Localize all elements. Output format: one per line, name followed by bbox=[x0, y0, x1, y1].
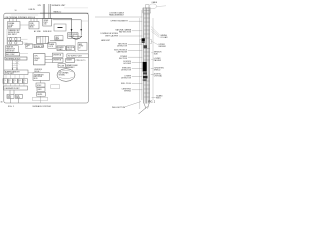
block B33 tall bbox=[78, 42, 87, 50]
block B8 bbox=[4, 70, 28, 75]
block B24 bbox=[33, 73, 50, 81]
wire drop a bbox=[9, 90, 11, 94]
wire c3 bbox=[45, 62, 52, 64]
block stack B5 bbox=[6, 46, 19, 53]
transformer box bbox=[43, 19, 52, 27]
wire drop bottom center bbox=[40, 96, 42, 103]
wire between A and B bbox=[20, 24, 29, 26]
wire meter leader 1 bbox=[21, 38, 28, 40]
svg-text:SET PT: SET PT bbox=[68, 36, 74, 38]
svg-text:ARM UNIT: ARM UNIT bbox=[101, 39, 111, 42]
left figure outer enclosure bbox=[4, 13, 89, 103]
block B10 bbox=[4, 86, 28, 90]
wire top right corner bbox=[81, 20, 88, 22]
svg-text:PANEL 12: PANEL 12 bbox=[54, 10, 62, 13]
block B28 bbox=[55, 36, 63, 40]
svg-text:PACKER: PACKER bbox=[159, 45, 167, 48]
wire drop b bbox=[13, 90, 15, 94]
svg-text:VESSEL: VESSEL bbox=[59, 75, 66, 77]
wire rung 2 bbox=[12, 65, 18, 67]
svg-text:DETECTOR: DETECTOR bbox=[121, 69, 132, 71]
svg-text:RAY SECTION: RAY SECTION bbox=[119, 31, 132, 34]
wire bus drop 3 bbox=[16, 18, 18, 21]
block BD2 bbox=[66, 58, 75, 62]
block G dark bbox=[34, 44, 43, 47]
right label R8 bbox=[154, 67, 165, 71]
wire row drops bottom bbox=[6, 84, 24, 87]
wire second bus bbox=[53, 20, 82, 36]
svg-text:INTERFACE BUS: INTERFACE BUS bbox=[6, 57, 21, 60]
svg-text:CTRL OUT 9: CTRL OUT 9 bbox=[76, 60, 86, 62]
leader fan line 2 bbox=[151, 29, 160, 36]
svg-text:CABLE: CABLE bbox=[152, 1, 158, 4]
black segment upper bbox=[141, 38, 144, 41]
svg-text:LEVEL: LEVEL bbox=[37, 94, 42, 96]
svg-text:MIXER: MIXER bbox=[67, 60, 73, 62]
wire stem 5 bbox=[40, 80, 42, 83]
wire feed line 1b bbox=[44, 4, 46, 19]
block D bbox=[52, 53, 63, 57]
svg-text:CTRL UNIT: CTRL UNIT bbox=[5, 73, 14, 75]
extra tool line bbox=[141, 10, 143, 100]
svg-text:WITH CALIPER: WITH CALIPER bbox=[105, 34, 118, 37]
connector block bbox=[37, 36, 49, 43]
svg-text:SURFACE SYSTEM: SURFACE SYSTEM bbox=[32, 105, 51, 108]
wire rung 3 bbox=[12, 67, 18, 69]
svg-text:240: 240 bbox=[44, 24, 47, 26]
wire bus drop 2 bbox=[12, 18, 14, 21]
surface sheave blob bbox=[149, 4, 157, 9]
svg-text:CRYSTAL: CRYSTAL bbox=[154, 75, 162, 78]
wire bus drop 1 bbox=[9, 18, 11, 21]
left label E bbox=[117, 43, 128, 47]
right label R9 bbox=[154, 74, 162, 78]
block A power supply bbox=[8, 22, 20, 29]
wire stem 2 bbox=[16, 60, 18, 70]
left label G bbox=[119, 56, 128, 60]
svg-text:UNIT: UNIT bbox=[34, 60, 38, 62]
wire rail y40.8 bbox=[50, 40, 64, 42]
left label H bbox=[123, 61, 131, 65]
svg-text:PACKER: PACKER bbox=[154, 59, 162, 62]
wire dark top border stretch bbox=[40, 12, 88, 14]
block B9a bbox=[3, 79, 7, 84]
wire X brace bbox=[15, 61, 20, 65]
svg-text:REF: REF bbox=[8, 97, 11, 99]
bottom taper bbox=[144, 104, 146, 109]
block I dark bbox=[57, 46, 65, 51]
borehole wall left bbox=[139, 18, 141, 109]
block B7 bar bbox=[5, 57, 27, 60]
svg-text:CARTRIDGE: CARTRIDGE bbox=[116, 51, 127, 54]
wellhead collar bbox=[143, 8, 151, 13]
block C stack bbox=[34, 54, 46, 65]
block E bbox=[52, 58, 63, 62]
block J dark bbox=[66, 46, 74, 51]
bottom diagonal bbox=[139, 107, 148, 115]
leader fan line 1 bbox=[151, 27, 160, 35]
svg-text:P3: P3 bbox=[14, 80, 16, 82]
svg-text:MODE SET: MODE SET bbox=[6, 50, 14, 52]
svg-text:PT: PT bbox=[26, 47, 28, 49]
right label T1 bbox=[160, 34, 168, 39]
block K1 bbox=[54, 24, 66, 31]
wire meter leader 2 bbox=[23, 42, 28, 44]
wire bus drop 5 bbox=[33, 18, 35, 21]
tool joints bbox=[144, 11, 150, 98]
arrowhead left bbox=[71, 29, 73, 31]
right label T2 bbox=[159, 44, 167, 48]
tank blob bbox=[57, 69, 75, 82]
svg-text:RING: RING bbox=[156, 98, 161, 100]
svg-text:RELAY SW: RELAY SW bbox=[35, 45, 44, 48]
wire main bus bbox=[4, 18, 72, 35]
left label D bbox=[101, 33, 119, 42]
right label T3 bbox=[154, 52, 162, 56]
block B receiver bbox=[29, 22, 39, 29]
meter box M2 bbox=[8, 41, 22, 44]
side nub 2 bbox=[150, 40, 152, 44]
wire bus drop 6 bbox=[36, 18, 38, 21]
wire row drops top bbox=[6, 75, 24, 79]
wire c1 bbox=[45, 56, 52, 58]
left label A bbox=[109, 11, 125, 16]
svg-text:30: 30 bbox=[1, 102, 3, 104]
leader fan line 3 bbox=[152, 32, 160, 38]
left label C bbox=[116, 29, 132, 34]
svg-text:FUSE BOX: FUSE BOX bbox=[43, 31, 52, 33]
black segment main bbox=[143, 62, 147, 72]
svg-text:P5: P5 bbox=[24, 80, 26, 82]
wire rung 1 bbox=[12, 63, 18, 65]
svg-text:LOGIC: LOGIC bbox=[67, 49, 73, 51]
svg-text:HEAD ASSEMBLY: HEAD ASSEMBLY bbox=[109, 13, 125, 16]
wire bottom drop 2 bbox=[17, 98, 19, 103]
svg-text:LINE IN: LINE IN bbox=[29, 9, 36, 11]
svg-text:10: 10 bbox=[15, 10, 17, 12]
block B9c bbox=[13, 79, 17, 84]
svg-text:CALIBRATION NET: CALIBRATION NET bbox=[5, 87, 20, 90]
wire B6 leader bbox=[20, 53, 28, 55]
svg-text:DETECTOR: DETECTOR bbox=[121, 77, 132, 79]
block faint bc bbox=[51, 85, 60, 89]
block H bbox=[48, 43, 56, 49]
arrowhead stem 1 bbox=[12, 69, 13, 71]
side nub 1 bbox=[140, 39, 142, 43]
svg-text:DRIVER B: DRIVER B bbox=[53, 60, 62, 62]
svg-text:SPRING: SPRING bbox=[124, 91, 131, 93]
block B9b bbox=[8, 79, 12, 84]
svg-text:AC LINE: AC LINE bbox=[34, 30, 41, 33]
arrowhead stem 2 bbox=[16, 69, 17, 71]
svg-text:P1: P1 bbox=[4, 80, 6, 82]
svg-text:HOLDER: HOLDER bbox=[124, 63, 132, 65]
wire into connector bbox=[24, 43, 34, 45]
arrowhead right bbox=[80, 29, 82, 31]
svg-text:A/D CONV: A/D CONV bbox=[6, 53, 15, 56]
svg-text:REF INPUT: REF INPUT bbox=[8, 34, 17, 36]
tool string verticals bbox=[144, 8, 150, 104]
wire connect tank bbox=[59, 70, 62, 72]
block B27 bbox=[37, 92, 46, 96]
wire faint leader above bbox=[64, 7, 88, 9]
meter box M1 bbox=[8, 37, 21, 41]
svg-text:UPPER TELEMETRY: UPPER TELEMETRY bbox=[111, 21, 129, 23]
wire vertical x75 bbox=[74, 39, 76, 52]
svg-text:COLLAR: COLLAR bbox=[160, 36, 168, 39]
svg-text:HV SUPPLY UNIT: HV SUPPLY UNIT bbox=[68, 56, 82, 58]
block B6 bbox=[6, 53, 20, 56]
block B12 bbox=[15, 94, 22, 98]
left label M bbox=[122, 89, 132, 93]
wire feed line 2b bbox=[50, 4, 52, 19]
svg-text:SYNC: SYNC bbox=[37, 85, 42, 87]
wire c2 bbox=[45, 59, 52, 61]
svg-text:FIG. 1: FIG. 1 bbox=[8, 106, 15, 108]
wire feed line 1a bbox=[42, 4, 44, 19]
block B9e bbox=[23, 79, 27, 84]
block B26 bbox=[37, 87, 45, 91]
left label J bbox=[121, 75, 132, 79]
svg-text:Z: Z bbox=[14, 82, 15, 84]
svg-text:BULL PLUG: BULL PLUG bbox=[121, 83, 131, 85]
svg-text:PULSE: PULSE bbox=[59, 66, 65, 68]
svg-text:P4: P4 bbox=[19, 80, 21, 82]
block B27b faint bbox=[33, 97, 48, 100]
bowl element bbox=[71, 36, 82, 39]
block B11 bbox=[7, 94, 14, 98]
borehole wall right bbox=[152, 18, 154, 100]
svg-text:FIG. 2: FIG. 2 bbox=[149, 101, 156, 104]
right label R10 bbox=[156, 95, 163, 100]
svg-text:CHAN: CHAN bbox=[58, 48, 64, 51]
wire bus drop 4 bbox=[30, 18, 32, 21]
block K5 bbox=[58, 64, 65, 68]
block F bbox=[26, 44, 33, 48]
block B29 bbox=[68, 33, 79, 38]
wire bottom drop 1 bbox=[10, 98, 12, 103]
svg-text:SHIELD: SHIELD bbox=[154, 69, 161, 71]
block B25 bbox=[36, 83, 45, 87]
wire stem 1 bbox=[12, 60, 14, 70]
svg-text:P2: P2 bbox=[9, 80, 11, 82]
svg-text:SURFACE UNIT: SURFACE UNIT bbox=[52, 4, 67, 7]
wire feed line 2a bbox=[48, 4, 50, 19]
right label T4 bbox=[154, 58, 162, 62]
block B9d bbox=[18, 79, 22, 84]
svg-text:DRIVER A: DRIVER A bbox=[53, 53, 62, 56]
left label F bbox=[114, 50, 128, 54]
block K3 wide bbox=[67, 54, 88, 58]
svg-text:DETECTOR: DETECTOR bbox=[117, 45, 128, 47]
svg-text:WELL BOTTOM: WELL BOTTOM bbox=[112, 107, 125, 109]
svg-text:SECTION: SECTION bbox=[119, 58, 128, 60]
left label I bbox=[121, 67, 132, 71]
wire left column vertical bbox=[6, 29, 8, 45]
wire b8 side bbox=[28, 72, 33, 74]
wire top inner bus bbox=[11, 14, 38, 16]
